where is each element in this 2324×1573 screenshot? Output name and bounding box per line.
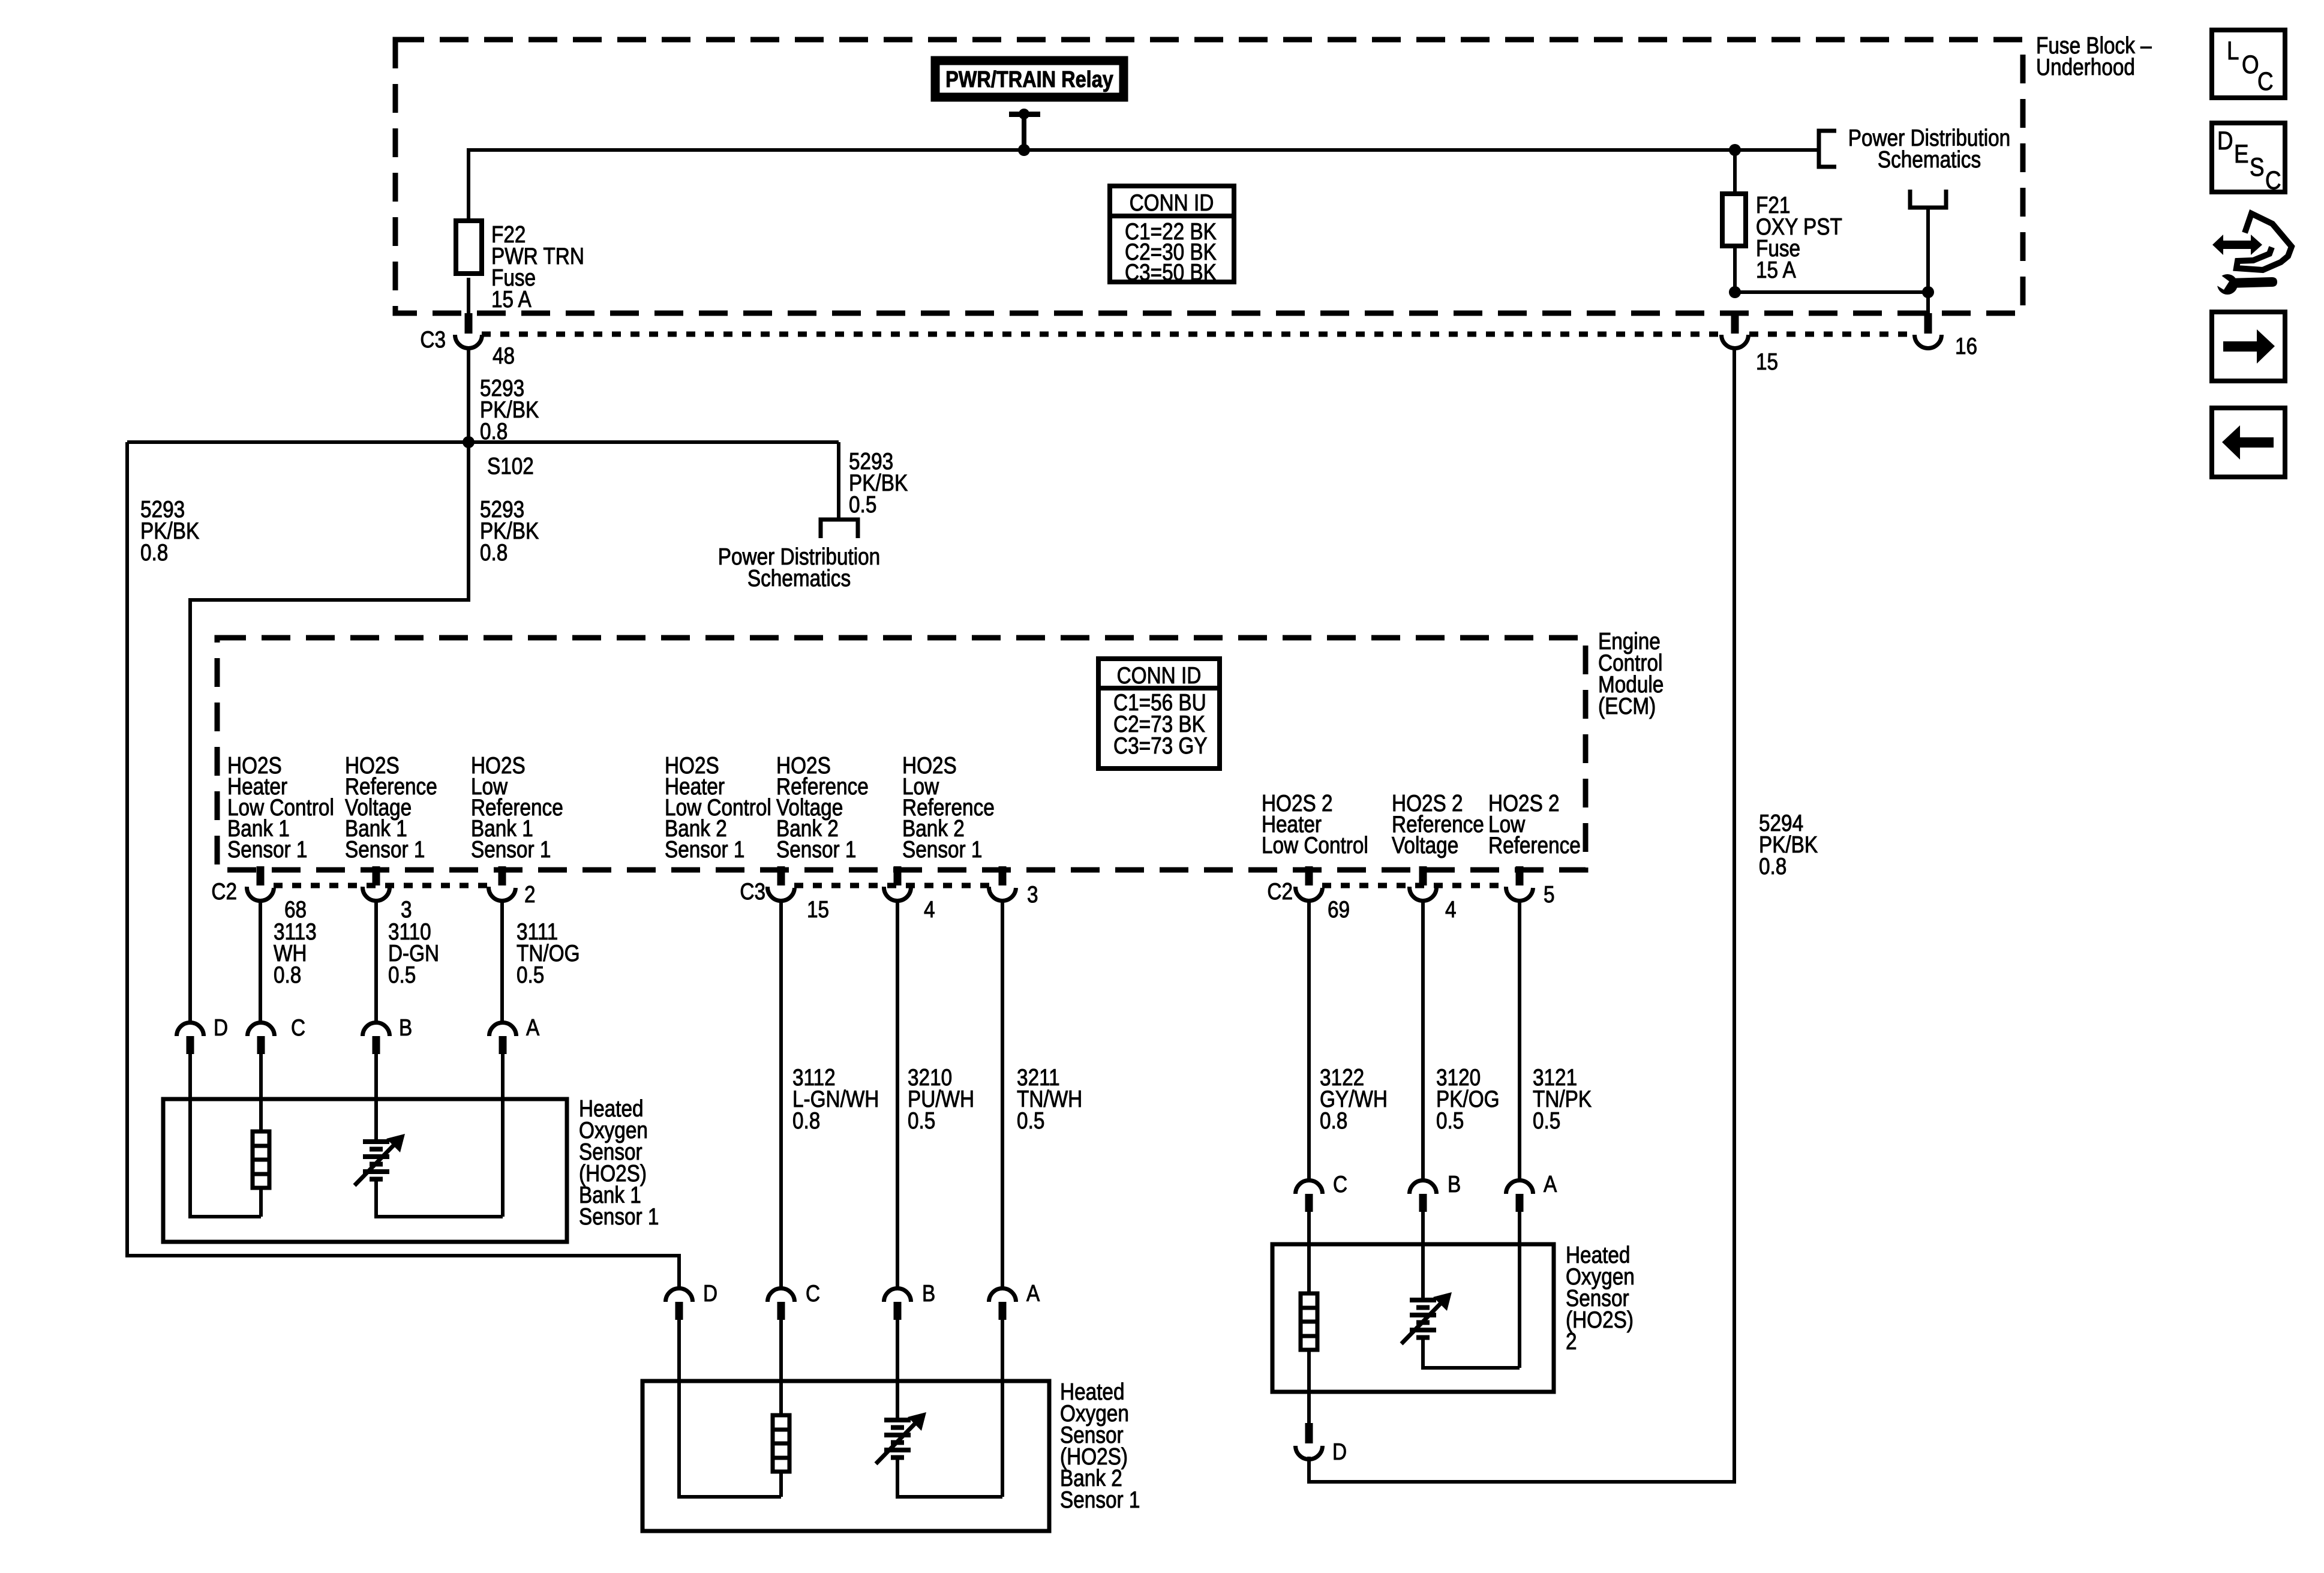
svg-text:0.5: 0.5 [1436, 1107, 1464, 1134]
svg-text:C3=73 GY: C3=73 GY [1113, 733, 1208, 759]
svg-text:2: 2 [524, 881, 536, 908]
svg-text:0.5: 0.5 [1533, 1107, 1560, 1134]
svg-text:Low Control: Low Control [1262, 832, 1368, 858]
svg-text:69: 69 [1328, 896, 1350, 923]
svg-text:D: D [214, 1014, 228, 1041]
svg-text:15: 15 [1756, 349, 1778, 375]
svg-text:B: B [399, 1014, 412, 1041]
svg-text:2: 2 [1566, 1328, 1577, 1355]
svg-text:Schematics: Schematics [1878, 146, 1981, 173]
svg-text:C: C [291, 1014, 305, 1041]
svg-text:Voltage: Voltage [1392, 832, 1458, 858]
svg-text:O: O [2242, 50, 2259, 79]
svg-text:Sensor 1: Sensor 1 [902, 836, 982, 863]
svg-text:0.5: 0.5 [517, 962, 544, 988]
svg-text:C: C [2265, 166, 2281, 194]
svg-text:C2: C2 [1267, 878, 1293, 905]
svg-text:5: 5 [1544, 881, 1555, 908]
svg-text:4: 4 [1445, 896, 1457, 923]
svg-text:C: C [1333, 1171, 1347, 1197]
svg-text:Reference: Reference [1488, 832, 1581, 858]
svg-text:C3: C3 [740, 878, 765, 905]
svg-text:0.5: 0.5 [1017, 1107, 1044, 1134]
svg-text:Sensor 1: Sensor 1 [665, 836, 744, 863]
svg-text:A: A [1544, 1171, 1557, 1197]
svg-text:A: A [526, 1014, 540, 1041]
svg-text:D: D [2217, 127, 2233, 155]
svg-text:D: D [703, 1280, 717, 1307]
svg-text:Underhood: Underhood [2036, 54, 2135, 80]
svg-text:S102: S102 [487, 453, 534, 479]
svg-text:B: B [922, 1280, 935, 1307]
svg-text:C: C [806, 1280, 820, 1307]
svg-text:PWR/TRAIN Relay: PWR/TRAIN Relay [945, 67, 1113, 92]
svg-text:Sensor 1: Sensor 1 [227, 836, 307, 863]
svg-text:15: 15 [807, 896, 829, 923]
svg-text:0.5: 0.5 [388, 962, 416, 988]
svg-text:B: B [1448, 1171, 1461, 1197]
svg-text:15 A: 15 A [491, 286, 532, 313]
svg-text:(ECM): (ECM) [1598, 693, 1656, 719]
svg-text:Sensor 1: Sensor 1 [579, 1203, 659, 1230]
svg-text:48: 48 [493, 343, 515, 369]
svg-text:0.8: 0.8 [140, 539, 168, 566]
svg-text:Sensor 1: Sensor 1 [471, 836, 551, 863]
svg-text:Sensor 1: Sensor 1 [776, 836, 856, 863]
svg-text:0.8: 0.8 [792, 1107, 820, 1134]
svg-text:0.5: 0.5 [908, 1107, 935, 1134]
svg-text:3: 3 [1027, 881, 1038, 908]
svg-text:Schematics: Schematics [747, 565, 851, 592]
svg-text:CONN ID: CONN ID [1130, 190, 1214, 216]
svg-text:0.5: 0.5 [849, 491, 876, 518]
svg-text:C2: C2 [211, 878, 237, 905]
svg-text:A: A [1026, 1280, 1040, 1307]
svg-text:0.8: 0.8 [1320, 1107, 1347, 1134]
svg-text:E: E [2234, 140, 2249, 168]
svg-text:C3: C3 [420, 326, 446, 353]
svg-text:16: 16 [1955, 333, 1977, 359]
svg-text:0.8: 0.8 [480, 418, 508, 445]
svg-text:S: S [2250, 153, 2265, 181]
svg-text:0.8: 0.8 [1759, 853, 1786, 879]
svg-text:0.8: 0.8 [480, 539, 508, 566]
svg-text:L: L [2227, 37, 2239, 65]
svg-text:Sensor 1: Sensor 1 [1060, 1487, 1140, 1513]
svg-text:CONN ID: CONN ID [1117, 662, 1202, 689]
svg-text:0.8: 0.8 [274, 962, 301, 988]
svg-text:D: D [1332, 1439, 1347, 1465]
svg-text:4: 4 [924, 896, 935, 923]
svg-text:Sensor 1: Sensor 1 [345, 836, 425, 863]
svg-text:C3=50 BK: C3=50 BK [1125, 259, 1217, 286]
svg-text:15 A: 15 A [1756, 257, 1796, 283]
svg-text:C: C [2257, 67, 2274, 95]
